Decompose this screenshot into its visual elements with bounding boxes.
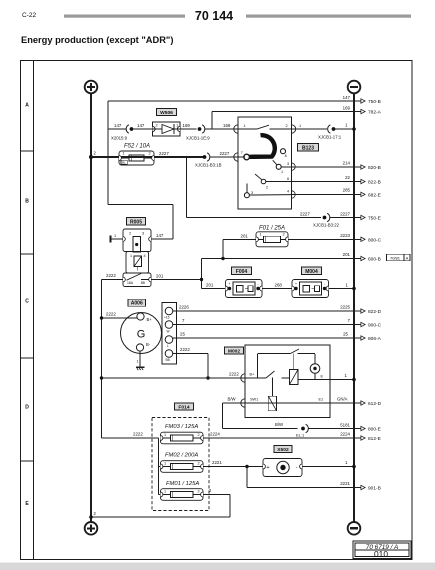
svg-text:70/81: 70/81: [390, 255, 401, 260]
svg-text:169: 169: [183, 123, 191, 128]
wire terminal 1 to minus rail: [334, 128, 355, 130]
svg-text:25: 25: [343, 332, 348, 337]
wire 268: [262, 288, 292, 290]
wire 147 top row: [108, 100, 355, 102]
svg-text:5181: 5181: [340, 423, 350, 428]
svg-text:2: 2: [197, 461, 199, 465]
relay R005 middle section: [126, 252, 149, 274]
label M004: [302, 267, 322, 275]
svg-text:FM02 / 200A: FM02 / 200A: [165, 453, 198, 459]
relay switch contact: [137, 267, 139, 271]
wire 169 to junction: [205, 128, 239, 130]
crossref box 70/81 A: [387, 254, 411, 261]
svg-text:B+: B+: [250, 373, 256, 377]
svg-text:612-D: 612-D: [368, 401, 382, 407]
wire 147 to diode: [134, 128, 153, 130]
title block: [353, 541, 411, 559]
fuse bus vertical: [158, 438, 160, 495]
battery plus terminal bottom: [85, 522, 98, 535]
svg-text:6: 6: [287, 177, 289, 181]
svg-text:L: L: [167, 344, 169, 348]
generator terminal B+: [137, 313, 144, 320]
battery minus terminal top: [348, 81, 361, 94]
output arrow 612-D: [355, 402, 361, 404]
generator circle: [121, 313, 162, 354]
switch contact 3 with stem: [246, 184, 248, 193]
connector XJCB1-B3:22: [323, 216, 327, 220]
wire 25 row: [173, 337, 355, 339]
output arrow 800-C: [355, 238, 361, 240]
svg-text:1: 1: [114, 234, 116, 238]
component F004: [226, 280, 263, 298]
svg-text:-: -: [324, 282, 325, 286]
relay R005 coil section: [123, 229, 151, 252]
svg-text:XJCB1-B3:22: XJCB1-B3:22: [313, 223, 340, 228]
svg-text:3: 3: [251, 191, 253, 195]
svg-text:4: 4: [144, 254, 146, 258]
wire 2222 generator feed: [102, 317, 137, 319]
component M004: [292, 280, 329, 298]
svg-text:214: 214: [343, 161, 351, 166]
connector XJCB1-1E:9: [198, 127, 202, 131]
svg-text:22: 22: [345, 175, 350, 180]
svg-text:3: 3: [142, 232, 144, 236]
junction plus rail to F52: [89, 155, 93, 159]
wire 147 drop to relay: [172, 205, 174, 240]
svg-text:C: C: [25, 299, 29, 305]
svg-text:2227: 2227: [220, 151, 230, 156]
generator ground wire: [139, 351, 141, 367]
switch contact 8: [281, 149, 286, 154]
battery minus terminal bottom: [348, 522, 361, 535]
output arrow 806-A: [355, 337, 361, 339]
relay coil: [133, 237, 141, 253]
svg-text:800-C: 800-C: [368, 237, 382, 243]
wire 147 vertical drop: [107, 101, 109, 205]
svg-text:GN/A: GN/A: [337, 397, 348, 402]
output arrow 900-C: [355, 324, 361, 326]
generator pin L: [165, 336, 173, 344]
wire 2 return loop: [203, 494, 230, 496]
minus rail wire: [353, 93, 355, 522]
relay pin 1 eyelet: [109, 236, 111, 243]
svg-text:FM03 / 125A: FM03 / 125A: [165, 424, 198, 430]
switch terminal 7: [244, 154, 250, 160]
generator connector strip: [162, 303, 177, 365]
svg-text:2222: 2222: [133, 432, 143, 437]
switch contact 1 with arm: [276, 164, 281, 169]
M002 lower coil: [268, 396, 276, 411]
svg-text:2222: 2222: [229, 372, 239, 377]
svg-text:901-B: 901-B: [368, 486, 381, 492]
wire 7 row: [173, 324, 355, 326]
M002 SW1 row: [245, 402, 330, 404]
battery plus terminal top: [85, 81, 98, 94]
svg-text:822-D: 822-D: [368, 309, 382, 315]
svg-text:XJCB1-B3:1B: XJCB1-B3:1B: [195, 163, 222, 168]
svg-text:2: 2: [266, 186, 268, 190]
relay R005 contact section: [123, 273, 151, 287]
svg-text:2221: 2221: [212, 460, 222, 465]
margin band line: [33, 61, 35, 560]
wire 1 M004 to rail: [329, 288, 355, 290]
svg-text:B: B: [25, 199, 29, 205]
switch contact 2 with arm: [261, 179, 266, 184]
output arrow 782-A: [355, 111, 361, 113]
svg-text:2223: 2223: [340, 233, 350, 238]
label X502: [274, 446, 292, 453]
ground symbol MM: [136, 366, 144, 368]
generator pin BB: [165, 350, 173, 358]
generator pin +15: [165, 307, 173, 315]
svg-text:268: 268: [275, 283, 283, 288]
svg-text:R005: R005: [130, 219, 142, 225]
wire 201 row to 600-B: [202, 258, 356, 260]
svg-text:SW1: SW1: [250, 398, 258, 402]
svg-text:2222: 2222: [180, 347, 190, 352]
wire 2222 relay left: [102, 279, 124, 281]
svg-text:1: 1: [164, 461, 166, 465]
wire 22 row: [292, 181, 356, 183]
svg-text:F004: F004: [236, 269, 248, 275]
wire 201 branch to F01: [222, 239, 224, 258]
M002 link vertical: [271, 378, 273, 397]
svg-text:820-B: 820-B: [368, 165, 381, 171]
label M002: [225, 347, 244, 354]
wire 169 top row: [212, 111, 355, 113]
M002 internal top wire: [258, 353, 291, 355]
wire 147 horizontal link: [108, 204, 173, 206]
svg-text:70 144: 70 144: [195, 9, 233, 23]
svg-text:XJCB1-17:1: XJCB1-17:1: [318, 135, 342, 140]
label R005: [127, 218, 146, 226]
generator terminal B-: [136, 344, 143, 351]
svg-text:1: 1: [137, 360, 139, 364]
M002 pin SW1: [241, 399, 245, 407]
svg-text:1: 1: [164, 489, 166, 493]
M002 charge lamp: [314, 354, 316, 364]
svg-text:812-E: 812-E: [368, 436, 381, 442]
svg-text:010: 010: [374, 549, 388, 559]
label W506: [157, 109, 177, 116]
svg-text:B-: B-: [146, 342, 151, 347]
svg-text:M004: M004: [305, 269, 318, 275]
svg-text:1: 1: [244, 124, 246, 128]
svg-text:2: 2: [282, 232, 284, 236]
svg-text:2224: 2224: [340, 432, 350, 437]
switch output wire terminal 1: [292, 125, 296, 133]
output arrow 682-E: [355, 193, 361, 195]
bus 2222 vertical: [101, 280, 103, 439]
svg-text:Energy production (except "ADR: Energy production (except "ADR"): [21, 35, 173, 45]
output arrow 800-E: [355, 428, 361, 430]
label F014: [175, 403, 194, 410]
wire 2222 to fuse bus: [102, 437, 159, 439]
wire 2222 row to M002: [102, 377, 246, 379]
wire 2221 row: [203, 466, 263, 468]
svg-text:8: 8: [285, 154, 287, 158]
svg-text:A: A: [406, 255, 409, 260]
svg-text:A006: A006: [131, 301, 143, 307]
plus rail wire: [90, 93, 92, 522]
svg-text:169: 169: [343, 106, 351, 111]
fuse holder F014 dashed box: [152, 418, 209, 511]
svg-text:1: 1: [176, 124, 178, 128]
wire 2227 bold feed: [91, 156, 205, 158]
svg-text:F014: F014: [178, 404, 189, 410]
svg-text:806-A: 806-A: [368, 336, 382, 342]
svg-text:X2015:9: X2015:9: [111, 136, 128, 141]
M002 internal vertical: [257, 354, 259, 378]
svg-text:2: 2: [197, 433, 199, 437]
svg-text:E1: E1: [319, 398, 324, 402]
wire 201 to F004: [202, 288, 226, 290]
svg-text:BL: BL: [122, 161, 126, 165]
svg-text:750-B: 750-B: [368, 99, 381, 105]
connector XJCB1-B3:1B: [203, 155, 207, 159]
svg-text:822-B: 822-B: [368, 180, 381, 186]
svg-text:F52 / 10A: F52 / 10A: [124, 144, 150, 150]
socket X502: [263, 459, 302, 477]
label B123: [298, 144, 319, 152]
svg-text:147: 147: [137, 123, 145, 128]
output arrow 901-B: [355, 487, 361, 489]
svg-text:1: 1: [122, 152, 124, 156]
svg-text:2221: 2221: [340, 481, 350, 486]
outer frame: [21, 61, 413, 560]
wire 1 X502 to rail: [302, 466, 354, 468]
wire 169 branch up: [211, 112, 213, 130]
svg-text:A: A: [25, 103, 29, 109]
svg-text:-: -: [296, 465, 298, 471]
svg-text:+: +: [229, 282, 231, 286]
svg-text:4: 4: [287, 190, 289, 194]
M002 E row: [299, 379, 331, 381]
M002 pin B+: [241, 374, 245, 382]
regulator M002 box: [245, 345, 330, 418]
wire 2221 branch to 901-B: [245, 465, 248, 468]
connector X2015:9: [126, 125, 129, 133]
svg-text:+15: +15: [164, 316, 170, 320]
svg-text:2: 2: [148, 152, 150, 156]
svg-text:M002: M002: [228, 348, 241, 354]
svg-text:D: D: [25, 405, 29, 411]
M002 internal B+ wire: [245, 377, 266, 379]
svg-text:1: 1: [130, 254, 132, 258]
svg-text:682-E: 682-E: [368, 192, 381, 198]
svg-text:2: 2: [129, 232, 131, 236]
wire 169 from diode: [180, 128, 197, 130]
svg-text:2226: 2226: [179, 305, 189, 310]
label A006: [128, 299, 146, 306]
ignition switch B123 box: [238, 117, 292, 209]
svg-text:147: 147: [114, 123, 122, 128]
svg-text:2227: 2227: [159, 151, 169, 156]
svg-text:+: +: [266, 465, 269, 471]
svg-text:1: 1: [259, 232, 261, 236]
connector XJCB1-17:1: [328, 125, 331, 133]
connector EL1: [301, 427, 305, 431]
svg-text:G: G: [137, 329, 146, 341]
svg-text:F01 / 25A: F01 / 25A: [259, 226, 285, 232]
output arrow 822-D: [355, 310, 361, 312]
header rule right: [246, 15, 411, 18]
svg-text:201: 201: [156, 274, 164, 279]
svg-text:2: 2: [286, 124, 288, 128]
svg-text:W: W: [167, 330, 170, 334]
svg-text:2: 2: [197, 489, 199, 493]
svg-text:201: 201: [206, 283, 214, 288]
svg-text:169: 169: [223, 123, 231, 128]
wire 147 diode feed row: [108, 128, 126, 130]
header rule left: [64, 15, 185, 18]
wire 285 row: [292, 193, 356, 195]
svg-text:600-B: 600-B: [368, 257, 381, 263]
wire B/W from SW1: [223, 402, 246, 404]
wire 2227 to switch terminal 7: [210, 156, 246, 158]
output arrow 822-B: [355, 181, 361, 183]
svg-text:147: 147: [156, 233, 164, 238]
svg-text:1: 1: [281, 170, 283, 174]
svg-text:8B: 8B: [141, 281, 146, 285]
output arrow 750-E: [355, 217, 361, 219]
switch wiper arc: [250, 135, 275, 157]
svg-text:W506: W506: [160, 110, 173, 116]
wire 2223 row: [288, 238, 355, 240]
wire 2227 branch down: [186, 157, 188, 218]
svg-text:+: +: [295, 282, 297, 286]
wire B/W row: [223, 428, 298, 430]
svg-text:800-E: 800-E: [368, 427, 381, 433]
diode W506 box: [153, 122, 181, 136]
wire 201 relay right: [151, 279, 202, 281]
svg-text:2224: 2224: [210, 432, 220, 437]
svg-text:2: 2: [155, 124, 157, 128]
svg-text:-: -: [257, 282, 258, 286]
output arrow 750-B: [355, 100, 361, 102]
wire 2224 row: [203, 437, 355, 439]
svg-text:X502: X502: [277, 447, 289, 453]
wire 2226 row: [173, 310, 355, 312]
M002 relay coil: [290, 370, 299, 385]
svg-text:2222: 2222: [106, 273, 116, 278]
svg-text:900-C: 900-C: [368, 323, 382, 329]
bottom gray band: [0, 563, 435, 570]
svg-text:XJCB1-1E:9: XJCB1-1E:9: [186, 136, 210, 141]
node 201 vertical: [201, 259, 203, 289]
wire 1 M002 to rail: [330, 379, 354, 381]
svg-text:285: 285: [343, 188, 351, 193]
output arrow 600-B: [355, 258, 361, 260]
svg-text:1: 1: [164, 433, 166, 437]
svg-text:18A: 18A: [127, 281, 134, 285]
diode symbol: [153, 128, 163, 130]
svg-text:B/W: B/W: [228, 397, 237, 402]
wire 2222 generator to M002: [173, 353, 208, 355]
svg-text:FM01 / 125A: FM01 / 125A: [166, 481, 199, 487]
svg-text:201: 201: [343, 252, 351, 257]
wire 147 relay feed: [151, 238, 173, 240]
svg-text:EL:1: EL:1: [296, 433, 305, 438]
svg-text:3: 3: [287, 162, 289, 166]
M002 coil top link: [293, 354, 295, 370]
svg-text:201: 201: [241, 233, 249, 238]
svg-text:1: 1: [299, 124, 301, 128]
generator pin W: [165, 321, 173, 329]
switch top contact line: [238, 128, 258, 130]
margin ticks: [21, 150, 34, 152]
svg-text:7: 7: [241, 151, 243, 155]
label F004: [232, 267, 252, 275]
svg-text:25: 25: [180, 332, 185, 337]
svg-text:2227: 2227: [340, 212, 350, 217]
output arrow 812-E: [355, 437, 361, 439]
wire 214 row: [292, 166, 356, 168]
output arrow 820-B: [355, 166, 361, 168]
svg-text:BB: BB: [166, 358, 170, 362]
svg-text:782-A: 782-A: [368, 110, 382, 116]
svg-text:147: 147: [343, 95, 351, 100]
relay resistor: [134, 256, 142, 267]
wire GN/A row to 612-D: [330, 402, 355, 404]
svg-text:C-22: C-22: [22, 12, 36, 19]
svg-text:B+: B+: [147, 317, 153, 322]
switch pin 1 entry: [234, 125, 238, 133]
svg-text:2227: 2227: [300, 212, 310, 217]
svg-text:2225: 2225: [340, 305, 350, 310]
svg-text:750-E: 750-E: [368, 216, 381, 222]
svg-text:B/W: B/W: [275, 422, 284, 427]
svg-text:2222: 2222: [106, 312, 116, 317]
wire 2227 row to 750-E: [187, 217, 322, 219]
svg-text:B123: B123: [302, 145, 314, 151]
